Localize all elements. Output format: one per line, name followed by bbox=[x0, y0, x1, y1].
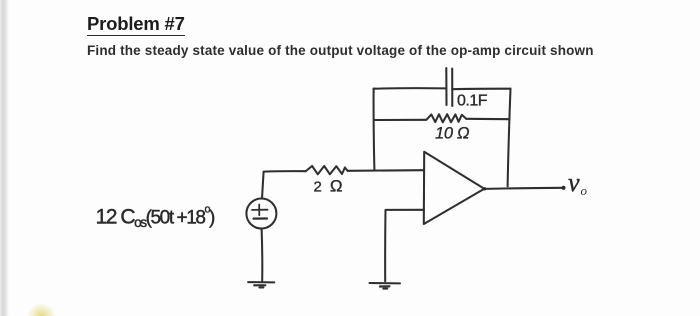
voltage source VS bbox=[246, 199, 276, 229]
node output terminal bbox=[561, 186, 565, 190]
wire 10ohm left lead bbox=[374, 119, 426, 121]
wire feedback top left segment bbox=[374, 87, 447, 90]
wire feedback top right segment bbox=[452, 88, 510, 91]
label 10 ohm bbox=[435, 125, 469, 143]
wire 10ohm right lead bbox=[466, 118, 509, 120]
label source value 12 Cos(50t +18deg) bbox=[96, 203, 215, 230]
op-amp U1 bbox=[424, 152, 485, 224]
capacitor C1 0.1F bbox=[446, 68, 452, 106]
wire feedback left vertical bbox=[373, 89, 376, 170]
svg-text:12 Cos(50t +18o): 12 Cos(50t +18o) bbox=[96, 203, 215, 230]
svg-text:0.1F: 0.1F bbox=[457, 93, 488, 110]
wire 2ohm to op-amp inverting input bbox=[348, 169, 425, 172]
label 2 ohm bbox=[314, 177, 343, 196]
wire op-amp output to terminal bbox=[485, 188, 563, 189]
ground at source bbox=[248, 282, 274, 287]
wire source top to resistor 2ohm bbox=[262, 171, 306, 198]
label vo bbox=[568, 168, 588, 198]
svg-text:o: o bbox=[581, 183, 588, 198]
node op-amp output junction bbox=[483, 187, 486, 190]
ground at non-inverting input bbox=[370, 283, 401, 289]
svg-text:2Ω: 2Ω bbox=[314, 177, 343, 196]
wire non-inverting input to ground bbox=[385, 210, 424, 281]
label 0.1F bbox=[457, 93, 488, 110]
wire source bottom to ground bbox=[261, 228, 264, 280]
wire feedback right vertical bbox=[508, 89, 511, 187]
resistor R2 10ohm bbox=[426, 114, 466, 122]
svg-text:v: v bbox=[568, 168, 580, 197]
svg-text:10 Ω: 10 Ω bbox=[435, 125, 469, 143]
resistor R1 2ohm bbox=[306, 166, 348, 174]
